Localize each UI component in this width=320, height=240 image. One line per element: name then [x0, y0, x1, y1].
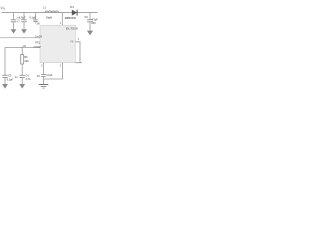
- capacitor C7 REF bypass: [37, 74, 53, 84]
- wire COMP: [5, 48, 40, 76]
- ground bars under REF: [39, 85, 49, 89]
- wire comp branch: [21, 48, 23, 55]
- wire EN: [0, 37, 40, 39]
- capacitor C4 output: [84, 13, 98, 31]
- svg-text:4.7µF: 4.7µF: [19, 15, 26, 19]
- svg-text:C3: C3: [8, 74, 12, 77]
- svg-text:4.7µF: 4.7µF: [91, 17, 98, 21]
- wire LX drop: [61, 13, 63, 25]
- svg-text:16V: 16V: [91, 21, 96, 25]
- svg-text:4.7n: 4.7n: [25, 78, 30, 81]
- capacitor C3 small: [29, 13, 38, 24]
- svg-text:FB: FB: [70, 42, 73, 44]
- svg-text:D1: D1: [70, 5, 74, 9]
- ground arrow under output cap: [87, 31, 93, 36]
- svg-text:C5: C5: [37, 75, 41, 78]
- capacitor C6: [2, 74, 13, 84]
- op-amp U1 EL7516 body: [40, 25, 78, 63]
- svg-text:VIN: VIN: [0, 6, 5, 11]
- wire FB: [75, 42, 82, 63]
- svg-text:FRQ: FRQ: [35, 41, 40, 44]
- ground arrow under C2 input: [21, 29, 27, 33]
- capacitor C1: [11, 13, 21, 29]
- svg-text:EL7516: EL7516: [66, 26, 78, 30]
- svg-text:4n: 4n: [15, 76, 18, 79]
- svg-text:5: 5: [60, 65, 62, 68]
- svg-text:L1: L1: [43, 6, 47, 10]
- svg-text:4.7: 4.7: [17, 21, 21, 24]
- svg-text:R1: R1: [25, 56, 29, 59]
- svg-text:0.1µF: 0.1µF: [7, 78, 14, 81]
- svg-text:3: 3: [41, 65, 43, 68]
- wire R1 to C5: [21, 64, 23, 75]
- diode D1: [65, 5, 77, 20]
- ground arrow under C1: [11, 29, 17, 33]
- capacitor C5: [15, 75, 31, 84]
- svg-text:4: 4: [78, 38, 80, 41]
- wire VIN top rail: [2, 12, 98, 14]
- svg-text:0.1µF: 0.1µF: [46, 74, 53, 77]
- resistor R1: [21, 55, 30, 64]
- ground arrow under C5: [19, 84, 25, 89]
- svg-text:10µH: 10µH: [46, 16, 53, 20]
- svg-text:MBR0530: MBR0530: [65, 17, 77, 20]
- svg-text:C2: C2: [84, 15, 88, 19]
- node junction dot: [22, 47, 23, 48]
- wire GND pin: [44, 63, 63, 79]
- ground arrow under C6: [2, 84, 8, 89]
- svg-text:16: 16: [36, 21, 40, 25]
- svg-text:2k9: 2k9: [25, 60, 30, 63]
- inductor L1: [43, 6, 59, 20]
- wire REF pin down: [43, 63, 45, 74]
- svg-text:0.1µF: 0.1µF: [29, 15, 36, 19]
- capacitor C2 input: [19, 13, 27, 29]
- svg-text:1: 1: [60, 22, 62, 25]
- svg-text:S=ON: S=ON: [35, 35, 42, 39]
- svg-text:COMP: COMP: [34, 46, 42, 49]
